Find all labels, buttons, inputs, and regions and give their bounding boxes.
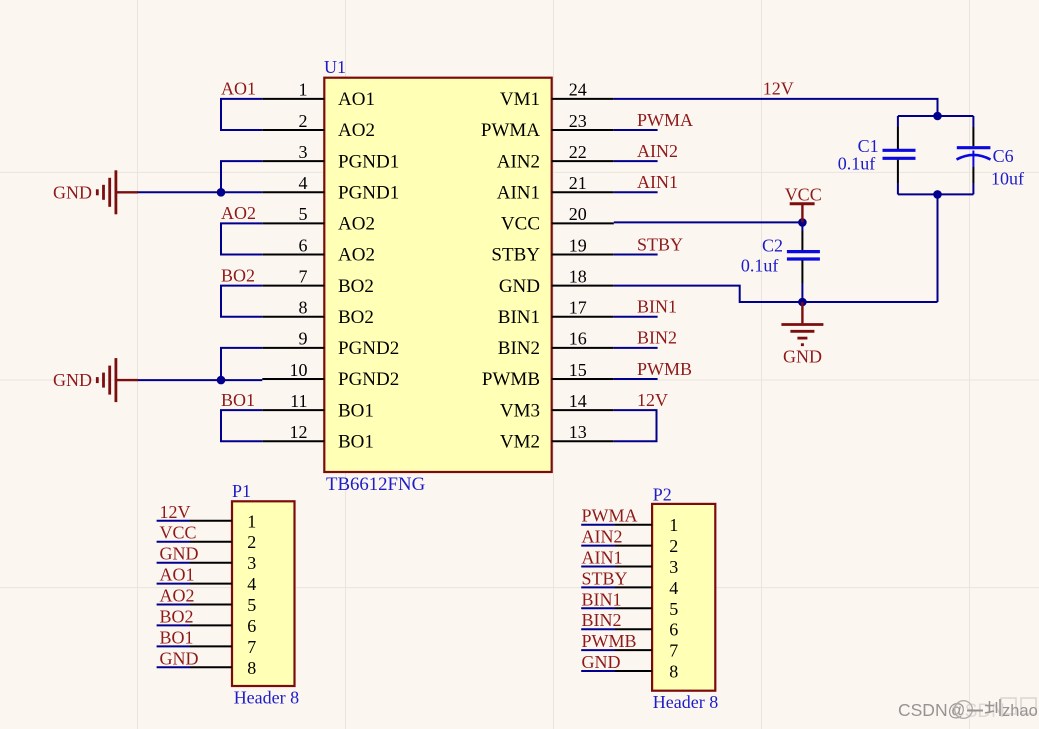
svg-text:19: 19 xyxy=(569,235,587,255)
svg-text:2: 2 xyxy=(247,532,256,552)
P2 pin 2 xyxy=(615,536,678,556)
svg-text:PWMB: PWMB xyxy=(482,369,540,390)
svg-text:GND: GND xyxy=(499,276,540,297)
wire net BIN1 to P2 pin 5 xyxy=(581,607,615,609)
wire net AIN1 stub xyxy=(614,191,658,193)
wire net VCC pin 20 xyxy=(614,221,803,223)
svg-text:BO1: BO1 xyxy=(338,431,374,452)
svg-text:AIN2: AIN2 xyxy=(497,151,540,172)
wire net AIN2 stub xyxy=(614,160,658,162)
P1 pin 4 xyxy=(190,574,256,594)
svg-text:U1: U1 xyxy=(324,57,346,77)
svg-text:2: 2 xyxy=(669,536,678,556)
P1 pin 7 xyxy=(190,637,256,657)
svg-text:23: 23 xyxy=(569,111,587,131)
wire net GND pin 18 xyxy=(614,286,938,302)
P2 pin 1 xyxy=(615,515,678,535)
U1 pin 22 AIN2 xyxy=(497,142,614,172)
wire net GND to P1 pin 3 xyxy=(157,562,190,564)
svg-text:BIN2: BIN2 xyxy=(637,328,677,348)
capacitor C2 0.1uf xyxy=(787,222,820,302)
svg-text:AO2: AO2 xyxy=(338,214,375,235)
svg-text:6: 6 xyxy=(669,620,678,640)
P2 pin 5 xyxy=(615,599,678,619)
svg-text:9: 9 xyxy=(299,329,308,349)
svg-text:GND: GND xyxy=(582,652,621,672)
svg-text:12V: 12V xyxy=(763,79,794,99)
wire net BO1 pins 11-12 loop xyxy=(221,410,262,441)
wire net PWMB stub xyxy=(614,378,658,380)
U1 pin 17 BIN1 xyxy=(498,298,614,328)
svg-text:zhao: zhao xyxy=(1002,702,1038,720)
wire net 12V to P1 pin 1 xyxy=(157,520,190,522)
svg-text:Header 8: Header 8 xyxy=(653,692,718,712)
svg-text:GND: GND xyxy=(53,370,92,390)
wire net GND riser to cap rail xyxy=(937,194,939,302)
wire net GND pin10 to ground xyxy=(137,379,262,381)
svg-text:GND: GND xyxy=(160,544,199,564)
svg-text:4: 4 xyxy=(669,578,678,598)
svg-text:18: 18 xyxy=(569,266,587,286)
svg-text:AIN2: AIN2 xyxy=(637,141,678,161)
svg-text:4: 4 xyxy=(247,574,256,594)
P2 pin 6 xyxy=(615,620,678,640)
svg-text:VCC: VCC xyxy=(160,523,197,543)
wire net GND to P2 pin 8 xyxy=(581,670,615,672)
svg-text:8: 8 xyxy=(669,662,678,682)
wire net PWMB to P2 pin 7 xyxy=(581,649,615,651)
svg-text:VM1: VM1 xyxy=(500,89,540,110)
svg-text:VCC: VCC xyxy=(785,185,822,205)
svg-text:AO1: AO1 xyxy=(338,89,375,110)
svg-text:5: 5 xyxy=(669,599,678,619)
svg-text:12: 12 xyxy=(290,422,308,442)
wire net AO2 to P1 pin 5 xyxy=(157,604,190,606)
junction top rail xyxy=(933,112,942,121)
svg-text:12V: 12V xyxy=(637,390,668,410)
svg-text:5: 5 xyxy=(247,595,256,615)
junction VCC/C2 xyxy=(798,218,807,227)
svg-text:VM2: VM2 xyxy=(500,431,540,452)
svg-text:10uf: 10uf xyxy=(991,168,1024,188)
svg-text:PWMA: PWMA xyxy=(582,506,638,526)
wire net STBY to P2 pin 4 xyxy=(581,586,615,588)
P2 pin 8 xyxy=(615,662,678,682)
svg-text:GND: GND xyxy=(53,182,92,202)
P2 pin 4 xyxy=(615,578,678,598)
P1 pin 5 xyxy=(190,595,256,615)
svg-text:22: 22 xyxy=(569,142,587,162)
svg-text:24: 24 xyxy=(569,80,587,100)
junction bottom rail xyxy=(933,190,942,199)
U1 pin 4 PGND1 xyxy=(262,173,399,203)
svg-text:AO1: AO1 xyxy=(221,79,256,99)
svg-text:15: 15 xyxy=(569,360,587,380)
svg-text:13: 13 xyxy=(569,422,587,442)
U1 pin 1 AO1 xyxy=(262,80,375,110)
U1 pin 16 BIN2 xyxy=(498,329,614,359)
svg-text:P1: P1 xyxy=(232,481,251,501)
svg-text:14: 14 xyxy=(569,391,587,411)
svg-text:BO1: BO1 xyxy=(221,390,255,410)
svg-text:8: 8 xyxy=(299,298,308,318)
wire net BIN2 stub xyxy=(614,347,658,349)
U1 pin 10 PGND2 xyxy=(262,360,399,390)
power VCC symbol xyxy=(785,185,822,223)
svg-text:AO1: AO1 xyxy=(160,565,195,585)
P1 pin 8 xyxy=(190,658,256,678)
wire net AO1 pins 1-2 loop xyxy=(221,99,262,130)
svg-text:BIN2: BIN2 xyxy=(498,338,540,359)
svg-text:AIN2: AIN2 xyxy=(582,527,623,547)
svg-text:AO2: AO2 xyxy=(338,245,375,266)
svg-text:VCC: VCC xyxy=(501,214,540,235)
svg-text:BO2: BO2 xyxy=(160,606,194,626)
svg-text:4: 4 xyxy=(299,173,308,193)
connector P1 Header 8 body xyxy=(232,501,295,686)
wire net BO1 to P1 pin 7 xyxy=(157,645,190,647)
svg-text:BIN1: BIN1 xyxy=(637,297,677,317)
svg-text:6: 6 xyxy=(247,616,256,636)
svg-text:GND: GND xyxy=(783,347,822,367)
svg-text:BO2: BO2 xyxy=(338,276,374,297)
wire net GND pin4 to ground xyxy=(137,191,262,193)
U1 pin 19 STBY xyxy=(491,235,613,265)
svg-text:7: 7 xyxy=(299,266,308,286)
svg-text:PGND1: PGND1 xyxy=(338,183,399,204)
U1 pin 7 BO2 xyxy=(262,266,374,296)
U1 pin 15 PWMB xyxy=(482,360,614,390)
svg-text:7: 7 xyxy=(247,637,256,657)
svg-text:PWMB: PWMB xyxy=(582,631,637,651)
U1 pin 24 VM1 xyxy=(500,80,614,110)
svg-text:3: 3 xyxy=(669,557,678,577)
svg-text:6: 6 xyxy=(299,235,308,255)
ground symbol GND (bottom right) xyxy=(781,302,823,367)
wire net BIN2 to P2 pin 6 xyxy=(581,628,615,630)
U1 pin 6 AO2 xyxy=(262,235,375,265)
svg-text:BO2: BO2 xyxy=(338,307,374,328)
wire net GND to P1 pin 8 xyxy=(157,666,190,668)
U1 pin 23 PWMA xyxy=(481,111,614,141)
P1 pin 3 xyxy=(190,553,256,573)
svg-text:BIN2: BIN2 xyxy=(582,610,622,630)
svg-text:3: 3 xyxy=(247,553,256,573)
U1 pin 9 PGND2 xyxy=(262,329,399,359)
wire net GND pin9 to pin10 xyxy=(221,348,262,380)
svg-text:BIN1: BIN1 xyxy=(582,589,622,609)
svg-text:0.1uf: 0.1uf xyxy=(741,256,779,276)
svg-text:GND: GND xyxy=(160,648,199,668)
U1 pin 12 BO1 xyxy=(262,422,374,452)
connector P2 Header 8 body xyxy=(652,504,715,691)
svg-text:20: 20 xyxy=(569,204,587,224)
capacitor C1 0.1uf xyxy=(883,116,916,194)
wire net VCC to P1 pin 2 xyxy=(157,541,190,543)
watermark CSDN @一钊zhao xyxy=(898,698,1038,722)
U1 pin 20 VCC xyxy=(501,204,614,234)
P2 pin 3 xyxy=(615,557,678,577)
junction pin10/GND xyxy=(217,376,226,385)
junction pin4/GND xyxy=(217,188,226,197)
U1 pin 8 BO2 xyxy=(262,298,374,328)
svg-text:Header 8: Header 8 xyxy=(234,688,299,708)
svg-text:PGND2: PGND2 xyxy=(338,369,399,390)
wire net STBY stub xyxy=(614,254,658,256)
wire net AO1 to P1 pin 4 xyxy=(157,583,190,585)
U1 pin 21 AIN1 xyxy=(497,173,614,203)
wire net PWMA to P2 pin 1 xyxy=(581,524,615,526)
svg-text:12V: 12V xyxy=(160,502,191,522)
svg-text:PWMA: PWMA xyxy=(637,110,693,130)
svg-text:C6: C6 xyxy=(993,146,1014,166)
svg-text:10: 10 xyxy=(290,360,308,380)
U1 pin 14 VM3 xyxy=(500,391,614,421)
wire net BO2 to P1 pin 6 xyxy=(157,624,190,626)
svg-text:PWMB: PWMB xyxy=(637,359,692,379)
svg-text:11: 11 xyxy=(290,391,307,411)
P1 pin 6 xyxy=(190,616,256,636)
P1 pin 1 xyxy=(190,511,256,531)
wire net BO2 pins 7-8 loop xyxy=(221,286,262,317)
svg-text:5: 5 xyxy=(299,204,308,224)
wire net AO2 pins 5-6 loop xyxy=(221,223,262,254)
svg-text:3: 3 xyxy=(299,142,308,162)
svg-text:BO2: BO2 xyxy=(221,265,255,285)
svg-text:C2: C2 xyxy=(762,236,783,256)
svg-text:BIN1: BIN1 xyxy=(498,307,540,328)
svg-text:AO2: AO2 xyxy=(221,203,256,223)
wire net AIN1 to P2 pin 3 xyxy=(581,566,615,568)
svg-text:7: 7 xyxy=(669,641,678,661)
svg-text:STBY: STBY xyxy=(491,245,540,266)
svg-text:TB6612FNG: TB6612FNG xyxy=(326,474,425,495)
U1 pin 13 VM2 xyxy=(500,422,614,452)
svg-text:1: 1 xyxy=(299,80,308,100)
svg-text:1: 1 xyxy=(247,511,256,531)
svg-text:AIN1: AIN1 xyxy=(497,183,540,204)
wire net BIN1 stub xyxy=(614,316,658,318)
P2 pin 7 xyxy=(615,641,678,661)
wire net GND pin3 to pin4 xyxy=(221,161,262,192)
U1 pin 11 BO1 xyxy=(262,391,374,421)
U1 pin 5 AO2 xyxy=(262,204,375,234)
svg-text:17: 17 xyxy=(569,298,587,318)
svg-text:STBY: STBY xyxy=(582,568,628,588)
P1 pin 2 xyxy=(190,532,256,552)
ground symbol GND (left lower) xyxy=(53,358,138,402)
capacitor C6 10uf (polarized) xyxy=(957,116,991,194)
U1 pin 3 PGND1 xyxy=(262,142,399,172)
svg-text:STBY: STBY xyxy=(637,234,683,254)
svg-text:1: 1 xyxy=(669,515,678,535)
svg-text:VM3: VM3 xyxy=(500,400,540,421)
svg-text:PGND2: PGND2 xyxy=(338,338,399,359)
svg-text:PGND1: PGND1 xyxy=(338,151,399,172)
U1 pin 2 AO2 xyxy=(262,111,375,141)
wire net PWMA stub xyxy=(614,129,658,131)
svg-text:8: 8 xyxy=(247,658,256,678)
svg-text:16: 16 xyxy=(569,329,587,349)
svg-text:2: 2 xyxy=(299,111,308,131)
wire net 12V pins 14-13 loop xyxy=(614,410,657,441)
wire net AIN2 to P2 pin 2 xyxy=(581,545,615,547)
svg-text:BO1: BO1 xyxy=(160,627,194,647)
svg-text:AO2: AO2 xyxy=(160,586,195,606)
svg-text:0.1uf: 0.1uf xyxy=(838,153,876,173)
junction GND/C2 xyxy=(798,298,807,307)
svg-text:BO1: BO1 xyxy=(338,400,374,421)
svg-text:AIN1: AIN1 xyxy=(637,172,678,192)
svg-text:AO2: AO2 xyxy=(338,120,375,141)
svg-text:P2: P2 xyxy=(653,485,672,505)
ground symbol GND (left upper) xyxy=(53,170,138,214)
svg-text:21: 21 xyxy=(569,173,587,193)
wire net 12V pin 24 xyxy=(614,99,938,116)
svg-text:PWMA: PWMA xyxy=(481,120,540,141)
op-amp/IC U1 body TB6612FNG xyxy=(324,78,551,472)
svg-text:AIN1: AIN1 xyxy=(582,548,623,568)
wire cap top rail xyxy=(898,115,974,117)
wire cap bottom rail xyxy=(898,193,974,195)
U1 pin 18 GND xyxy=(499,266,614,296)
